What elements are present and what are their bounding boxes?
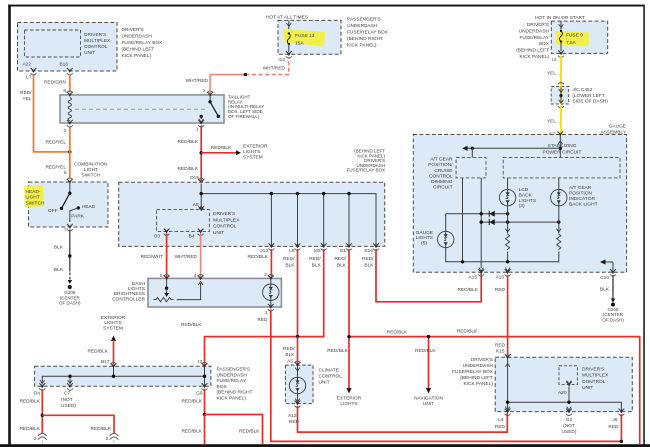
gauge lights lamp	[416, 214, 454, 248]
label headlight switch	[26, 189, 45, 206]
fuse 9	[559, 21, 583, 51]
svg-text:LIGHT: LIGHT	[26, 195, 40, 201]
svg-text:RED: RED	[495, 424, 506, 430]
svg-text:HEAD-: HEAD-	[26, 189, 41, 195]
svg-text:DRIVER'S: DRIVER'S	[527, 22, 549, 28]
svg-text:RED/: RED/	[335, 256, 347, 262]
svg-text:LCD: LCD	[519, 187, 529, 193]
svg-text:BLK: BLK	[54, 267, 64, 273]
svg-text:DRIVER'S: DRIVER'S	[122, 27, 144, 33]
svg-text:BACK LIGHT: BACK LIGHT	[569, 201, 598, 207]
relay switch contacts	[199, 95, 220, 122]
svg-text:KICK PANEL): KICK PANEL)	[519, 54, 549, 60]
svg-text:LIGHTS: LIGHTS	[128, 286, 145, 292]
svg-text:L4: L4	[498, 417, 504, 423]
svg-text:(5): (5)	[421, 241, 427, 247]
connector 2 (left)	[34, 433, 47, 444]
wire RED A16 down to K15	[495, 275, 508, 357]
diode row 2	[480, 219, 561, 225]
wire RED/BLK from G9 down	[181, 389, 204, 415]
pin I2	[202, 362, 208, 368]
svg-text:RED/BLK: RED/BLK	[239, 429, 260, 435]
svg-text:RED/YEL: RED/YEL	[45, 140, 66, 146]
svg-text:LIGHTS: LIGHTS	[243, 149, 260, 155]
stabilizing power circuit label	[543, 143, 582, 155]
svg-text:3: 3	[63, 128, 66, 134]
svg-text:(NOT: (NOT	[563, 423, 575, 429]
svg-text:CONTROL: CONTROL	[429, 173, 453, 179]
svg-text:OF FIREWALL): OF FIREWALL)	[228, 114, 260, 119]
svg-text:GAUGE: GAUGE	[609, 123, 626, 129]
pin B4	[189, 229, 204, 240]
pin A12	[288, 401, 301, 425]
svg-text:USED): USED)	[562, 429, 577, 435]
wire RED/BLK M3 down, left to I2	[181, 249, 324, 365]
svg-text:7: 7	[64, 227, 67, 233]
driver's multiplex control unit (inner box, top left)	[25, 30, 112, 57]
A/T gear position/cruise control dimming circuit box	[428, 157, 486, 191]
svg-text:SWITCH: SWITCH	[82, 173, 101, 179]
svg-text:RED/BLK: RED/BLK	[19, 426, 40, 432]
svg-text:RED/BLK: RED/BLK	[247, 254, 268, 260]
wire RED/YEL from A22 (L7)	[20, 74, 68, 152]
svg-text:FUSE/RELAY BOX: FUSE/RELAY BOX	[122, 40, 164, 46]
pin A15	[468, 268, 484, 281]
svg-text:MULTIPLEX: MULTIPLEX	[582, 373, 609, 379]
branch to exterior lights system (upper)	[201, 143, 268, 160]
diode row 1	[446, 211, 510, 217]
svg-text:CONTROL: CONTROL	[582, 379, 606, 385]
svg-text:UNIT: UNIT	[213, 230, 224, 236]
svg-text:RED/: RED/	[20, 90, 32, 96]
svg-text:D4: D4	[34, 391, 40, 397]
label gauge assembly	[600, 123, 626, 135]
A/T lamp to resistor	[508, 206, 561, 262]
svg-text:4: 4	[194, 273, 197, 279]
relay pin 2	[203, 88, 213, 97]
wire RED J6 down to bottom rail	[620, 414, 622, 441]
svg-text:LIGHTS: LIGHTS	[519, 198, 536, 204]
svg-text:(BEHIND RIGHT: (BEHIND RIGHT	[217, 390, 253, 396]
svg-text:RED/: RED/	[283, 256, 295, 262]
svg-text:RED/BLK: RED/BLK	[181, 322, 202, 328]
svg-text:RED: RED	[257, 317, 268, 323]
wire BLK C10 to G206	[600, 275, 615, 303]
pin B3	[154, 229, 169, 240]
passenger's underdash fuse/relay box (bottom)	[35, 366, 253, 401]
controller pin 2	[264, 272, 274, 280]
svg-text:BRIGHTNESS: BRIGHTNESS	[114, 291, 145, 297]
svg-text:RED/BLK: RED/BLK	[387, 330, 408, 336]
svg-text:BLK: BLK	[54, 244, 64, 250]
pin B16	[59, 62, 72, 75]
svg-text:A8: A8	[193, 202, 199, 208]
junction on D4 wire	[41, 414, 44, 417]
svg-text:G9: G9	[196, 391, 203, 397]
svg-text:FUSE/RELAY BOX: FUSE/RELAY BOX	[347, 30, 389, 36]
svg-text:RED/YEL: RED/YEL	[45, 165, 66, 171]
wire RED/BLK L8 down to A5 junction	[283, 249, 297, 337]
bottom rail inside gauge box	[446, 248, 510, 264]
svg-text:5: 5	[160, 273, 163, 279]
svg-text:RED: RED	[495, 287, 506, 293]
svg-text:GAUGE: GAUGE	[416, 230, 433, 236]
svg-text:RED/GRN: RED/GRN	[44, 80, 67, 86]
pin A5	[295, 361, 301, 367]
svg-text:DASH: DASH	[132, 281, 146, 287]
svg-text:A12: A12	[288, 413, 297, 419]
controller pin 1	[257, 304, 273, 323]
svg-text:MULTIPLEX: MULTIPLEX	[84, 38, 111, 44]
svg-text:2: 2	[34, 436, 37, 442]
relay pin 1	[196, 120, 204, 132]
switch pin 7	[64, 224, 73, 233]
headlight switch contacts	[48, 182, 96, 222]
svg-text:FUSE/RELAY BOX: FUSE/RELAY BOX	[347, 168, 385, 173]
C10 branch inside gauge box	[600, 259, 613, 270]
svg-text:POWER CIRCUIT: POWER CIRCUIT	[543, 149, 582, 155]
svg-text:CLIMATE: CLIMATE	[319, 368, 339, 374]
pin C7	[557, 132, 563, 145]
wire BLK from pin 7 to G206	[54, 230, 72, 285]
svg-text:B3: B3	[154, 234, 160, 240]
svg-text:HOT IN ON OR START: HOT IN ON OR START	[535, 15, 585, 21]
svg-text:LIGHTS: LIGHTS	[104, 320, 121, 326]
controller pin 4	[194, 273, 204, 280]
svg-text:BACK: BACK	[519, 192, 533, 198]
pin L4	[495, 409, 511, 430]
svg-text:UNDERDASH: UNDERDASH	[519, 28, 550, 34]
svg-text:M3: M3	[314, 248, 321, 254]
wire YEL from J/C to C7	[547, 106, 561, 138]
svg-text:(BEHIND RIGHT: (BEHIND RIGHT	[347, 36, 383, 42]
svg-text:RED/BLK: RED/BLK	[90, 426, 111, 432]
svg-text:BOX: BOX	[539, 41, 550, 47]
controller pin 5	[160, 273, 170, 280]
svg-text:UNIT: UNIT	[319, 380, 330, 386]
svg-text:LIGHTS: LIGHTS	[340, 401, 357, 407]
svg-text:PASSENGER'S: PASSENGER'S	[217, 367, 251, 373]
svg-text:RED/BLK: RED/BLK	[181, 399, 202, 405]
svg-text:RED/: RED/	[362, 256, 374, 262]
svg-text:RED/BLK: RED/BLK	[177, 166, 198, 172]
wire RED from controller pin 1 to bottom rail	[271, 310, 622, 442]
passenger box internal rail	[40, 366, 206, 386]
svg-text:15A: 15A	[295, 41, 304, 47]
svg-text:FUSE/RELAY: FUSE/RELAY	[217, 378, 247, 384]
svg-text:WHT/RED: WHT/RED	[263, 66, 286, 72]
svg-text:OF DASH): OF DASH)	[602, 317, 624, 322]
svg-text:A15: A15	[468, 275, 477, 281]
label RED/BLK + A5 above climate control	[283, 346, 295, 364]
svg-text:CIRCUIT: CIRCUIT	[433, 185, 453, 191]
svg-text:SWITCH: SWITCH	[26, 200, 45, 206]
ground G206 (left)	[59, 285, 81, 306]
pin A16	[495, 268, 510, 281]
border frame top	[8, 5, 645, 7]
pin B17	[111, 362, 117, 368]
svg-text:B4: B4	[189, 234, 195, 240]
svg-text:PARK: PARK	[71, 214, 85, 220]
pin A22	[22, 62, 36, 75]
svg-text:I4: I4	[552, 57, 556, 63]
bottom right box internals	[505, 359, 621, 411]
pins J13 L8 M3 E1 K16 at box bottom	[260, 243, 274, 253]
LCD lamp to resistor	[505, 206, 510, 262]
branch right to connector 2	[42, 415, 114, 433]
internal wire C7 to stabilizing box	[462, 136, 562, 157]
svg-text:J13: J13	[260, 248, 268, 254]
svg-text:6: 6	[63, 88, 66, 94]
svg-text:B17: B17	[101, 359, 110, 365]
switch pin 6	[64, 170, 73, 184]
svg-text:BLK: BLK	[312, 263, 322, 269]
svg-text:RED/BLK: RED/BLK	[457, 287, 478, 293]
driver's multiplex control unit (inner, middle box)	[157, 209, 241, 236]
svg-text:RED: RED	[608, 424, 619, 430]
exterior lights system (lower left)	[87, 315, 125, 365]
svg-text:E1: E1	[340, 248, 346, 254]
label: driver's underdash fuse/relay box text	[122, 27, 164, 59]
svg-text:CONTROL: CONTROL	[84, 44, 108, 50]
svg-text:POSITION: POSITION	[569, 191, 592, 197]
svg-text:BLK: BLK	[600, 287, 610, 293]
svg-text:UNDERDASH: UNDERDASH	[122, 34, 153, 40]
internal rail from D15	[200, 184, 377, 246]
pin J6	[608, 409, 624, 430]
dash lights brightness controller box	[112, 278, 281, 307]
svg-text:RED/BLK: RED/BLK	[457, 329, 478, 335]
climate lamp	[289, 365, 305, 404]
svg-text:COMBINATION: COMBINATION	[74, 162, 108, 168]
svg-text:KICK PANEL): KICK PANEL)	[122, 53, 152, 59]
svg-text:RED/BLK: RED/BLK	[415, 348, 436, 354]
driver's underdash fuse/relay box (fuse 9)	[516, 21, 607, 60]
svg-text:INDICATOR: INDICATOR	[569, 196, 595, 202]
svg-text:CONTROLLER: CONTROLLER	[112, 296, 145, 302]
svg-text:A/T GEAR: A/T GEAR	[430, 157, 453, 163]
svg-text:HOT AT ALL TIMES: HOT AT ALL TIMES	[266, 15, 308, 21]
junction dot L8/A5	[296, 335, 299, 338]
relay pin 3	[67, 120, 73, 127]
svg-text:RED/BLK: RED/BLK	[181, 429, 202, 435]
highlight headlight switch	[24, 185, 44, 208]
svg-text:2: 2	[106, 436, 109, 442]
svg-text:BLK: BLK	[285, 263, 295, 269]
svg-text:G2: G2	[566, 417, 573, 423]
svg-text:I12: I12	[278, 57, 285, 63]
svg-text:2: 2	[264, 272, 267, 278]
svg-text:SYSTEM: SYSTEM	[243, 154, 263, 160]
highlight fuse 9	[556, 31, 590, 46]
svg-text:7.5A: 7.5A	[566, 40, 577, 46]
svg-text:C10: C10	[600, 275, 609, 281]
wire RED/BLK from D4 down	[19, 389, 42, 434]
dimming circuit output wires	[463, 178, 482, 268]
relay pin 6	[63, 88, 72, 97]
pin I4	[552, 50, 564, 63]
svg-text:WHT/RED: WHT/RED	[186, 78, 209, 84]
svg-text:KICK PANEL): KICK PANEL)	[463, 381, 493, 387]
svg-text:L7: L7	[26, 74, 32, 80]
svg-text:FUSE 9: FUSE 9	[566, 33, 583, 39]
combination light switch box	[29, 162, 109, 228]
junction at E1 on rail	[347, 335, 350, 338]
svg-text:DRIVER'S: DRIVER'S	[582, 366, 604, 372]
passenger's underdash fuse/relay box (fuse 13)	[278, 17, 389, 55]
pin G2 (not used)	[562, 409, 577, 435]
svg-text:RED/: RED/	[283, 346, 295, 352]
svg-text:MULTIPLEX: MULTIPLEX	[213, 217, 240, 223]
svg-text:(BEHIND LEFT: (BEHIND LEFT	[516, 48, 549, 54]
gauge assembly box	[413, 135, 626, 273]
wire WHT/RED B4 to controller pin 4	[175, 234, 201, 279]
svg-text:YEL: YEL	[22, 96, 31, 102]
driver's underdash fuse/relay box (top left)	[18, 23, 118, 72]
svg-text:RED/WHT: RED/WHT	[141, 254, 163, 260]
border frame bottom bar	[0, 444, 650, 447]
fuse 13	[287, 20, 315, 52]
relay coil	[68, 98, 71, 121]
svg-text:1: 1	[196, 126, 199, 132]
climate control unit box	[285, 365, 342, 404]
A/T gear position indicator back light lamp	[551, 178, 598, 208]
svg-text:POSITION/: POSITION/	[428, 162, 453, 168]
svg-text:RED/BLK: RED/BLK	[211, 145, 232, 151]
border frame right	[643, 5, 645, 445]
svg-text:C7: C7	[64, 391, 70, 397]
svg-text:(BEHIND LEFT: (BEHIND LEFT	[460, 375, 493, 381]
svg-text:CONTROL: CONTROL	[319, 374, 343, 380]
svg-text:KICK PANEL): KICK PANEL)	[217, 396, 247, 402]
svg-text:B16: B16	[59, 62, 68, 68]
svg-text:UNIT: UNIT	[582, 385, 593, 391]
svg-text:RED/BLK: RED/BLK	[87, 349, 108, 355]
svg-text:YEL: YEL	[547, 71, 556, 77]
svg-text:DRIVER'S: DRIVER'S	[213, 211, 235, 217]
svg-text:PASSENGER'S: PASSENGER'S	[347, 17, 381, 23]
junction on D15 wire	[200, 151, 203, 154]
svg-text:A16: A16	[495, 275, 504, 281]
pin A8	[193, 202, 204, 211]
svg-text:(NOT: (NOT	[61, 397, 73, 403]
wire RED/YEL relay pin3 down to combination switch pin 6	[45, 127, 69, 179]
pin D4	[34, 383, 45, 396]
pin G9	[196, 383, 207, 396]
junction dot on WHT/RED wire	[244, 73, 247, 76]
svg-text:UNDERDASH: UNDERDASH	[463, 363, 494, 369]
wire RED/BLK J13 to controller pin 2	[247, 249, 271, 278]
svg-text:UNIT: UNIT	[423, 401, 434, 407]
svg-text:CRUISE: CRUISE	[434, 168, 452, 174]
svg-text:RED/: RED/	[309, 256, 321, 262]
pin K15	[505, 354, 511, 367]
svg-text:SYSTEM: SYSTEM	[103, 326, 123, 332]
controller lamp between pin 2 and pin 1	[263, 278, 279, 307]
wire RED/BLK to navigation unit	[414, 335, 443, 407]
svg-text:1: 1	[265, 310, 268, 316]
svg-text:NAVIGATION: NAVIGATION	[414, 395, 443, 401]
wire RED/GRN from B16 to relay pin 6	[44, 75, 70, 92]
svg-text:J/C C452: J/C C452	[572, 87, 592, 93]
svg-text:OF DASH): OF DASH)	[59, 301, 81, 306]
svg-text:LIGHT: LIGHT	[84, 167, 98, 173]
svg-text:LIGHTS: LIGHTS	[416, 235, 433, 241]
svg-text:BLK: BLK	[364, 263, 374, 269]
svg-text:KICK PANEL): KICK PANEL)	[347, 43, 377, 49]
connector 2 (right)	[106, 433, 119, 444]
svg-text:K16: K16	[364, 248, 373, 254]
wire RED/BLK from relay pin 1 to D15	[177, 126, 201, 182]
highlight fuse 13	[283, 29, 325, 47]
pin C7 (not used)	[61, 383, 76, 409]
svg-text:(BEHIND LEFT: (BEHIND LEFT	[122, 47, 155, 53]
svg-text:UNDERDASH: UNDERDASH	[347, 23, 378, 29]
svg-text:6: 6	[64, 170, 67, 176]
LCD back lights lamp	[499, 178, 536, 209]
stabilizing power circuit box	[503, 157, 620, 178]
svg-text:EXTERIOR: EXTERIOR	[243, 143, 268, 149]
svg-text:A22: A22	[22, 62, 31, 68]
svg-text:K15: K15	[496, 349, 505, 355]
svg-text:HEAD: HEAD	[82, 204, 96, 210]
red rail from E1 junction to right edge and down	[349, 329, 640, 445]
svg-text:WHT/RED: WHT/RED	[175, 254, 198, 260]
wire RED from A12 right to L4	[298, 406, 508, 432]
svg-text:UNIT: UNIT	[84, 50, 95, 56]
wire RED/WHT B3 to controller pin 5	[141, 234, 167, 279]
svg-text:USED): USED)	[61, 403, 76, 409]
driver's multiplex control unit (inner, bottom right)	[559, 366, 609, 391]
svg-text:(LOWER LEFT: (LOWER LEFT	[572, 93, 604, 99]
junction of A22 wire and pin3 wire	[68, 150, 71, 153]
driver's underdash fuse/relay box (bottom right)	[452, 357, 632, 412]
taillight relay box	[60, 95, 264, 123]
svg-text:L8: L8	[289, 248, 295, 254]
svg-text:BLK: BLK	[285, 352, 295, 358]
svg-text:BLK: BLK	[337, 263, 347, 269]
svg-text:OFF: OFF	[48, 208, 58, 214]
svg-text:A5: A5	[287, 358, 293, 364]
J/C C452	[551, 83, 608, 109]
wire RED/BLK K16 down and right to A15	[362, 249, 481, 302]
svg-text:RED: RED	[495, 342, 506, 348]
svg-text:A/T GEAR: A/T GEAR	[569, 185, 592, 191]
svg-text:J6: J6	[612, 417, 617, 423]
svg-text:EXTERIOR: EXTERIOR	[337, 395, 362, 401]
wire YEL from I4 to J/C C452	[547, 56, 561, 87]
pin A20	[558, 381, 572, 396]
svg-text:FUSE/RELAY BOX: FUSE/RELAY BOX	[452, 369, 494, 375]
svg-text:YEL: YEL	[547, 119, 556, 125]
svg-text:FUSE 13: FUSE 13	[295, 33, 315, 39]
G9 wire continues down and branch right goes off-page	[181, 415, 262, 445]
pin C10	[600, 269, 616, 281]
wire RED/BLK E1 down to exterior lights	[327, 249, 362, 407]
svg-text:RED/BLK: RED/BLK	[177, 139, 198, 145]
svg-text:DRIVER'S: DRIVER'S	[471, 357, 493, 363]
svg-text:A20: A20	[558, 390, 567, 396]
controller internals: potentiometer	[154, 278, 203, 301]
svg-text:RED/BLK: RED/BLK	[327, 348, 348, 354]
pin D15	[190, 175, 204, 184]
border frame left	[8, 5, 11, 445]
svg-text:FUSE/RELAY: FUSE/RELAY	[519, 35, 549, 41]
svg-text:BOX: BOX	[217, 384, 228, 390]
svg-text:CONTROL: CONTROL	[213, 224, 237, 230]
wire RED/BLK from A5 junction into climate box	[297, 337, 299, 364]
svg-text:SIDE OF DASH): SIDE OF DASH)	[572, 99, 608, 105]
